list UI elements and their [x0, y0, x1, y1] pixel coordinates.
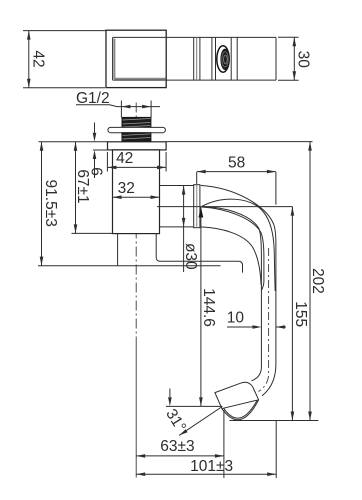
- svg-text:42: 42: [29, 50, 46, 67]
- top view: extension line lower left: [23, 87, 105, 89]
- svg-text:202: 202: [309, 268, 326, 294]
- angle 31 degree vertical arrow: [169, 389, 171, 398]
- outlet rim arc outer: [222, 400, 259, 419]
- dimension 58 extension lines: [197, 172, 276, 205]
- escutcheon flange: [108, 127, 165, 132]
- front view: body block: [113, 150, 160, 234]
- spout tube centerline: [259, 248, 269, 392]
- extension line at outlet bottom: [230, 420, 319, 422]
- top view: spout right end edge: [275, 37, 277, 80]
- dimension 58 line: [197, 171, 276, 173]
- front view: under-counter shank: [117, 234, 119, 266]
- dimension 91.5±3 line: [41, 142, 43, 266]
- svg-text:ø30: ø30: [182, 243, 199, 270]
- dimension 32 (body width) line: [113, 196, 160, 198]
- top view: inner shading left: [113, 39, 115, 79]
- G1/2 underline leader: [76, 105, 160, 107]
- dimension 42 (plate width) extension lines: [107, 152, 166, 172]
- extension line at spout water level: [157, 206, 293, 208]
- extension line at body bottom: [72, 232, 113, 234]
- top view: aerator concentric ellipses: [217, 46, 229, 72]
- spout taper curve 3b: [202, 207, 264, 290]
- extension line at plate top (right): [166, 141, 312, 143]
- dimension 42 (top view height) line: [28, 31, 30, 88]
- top view: aerator housing lines: [211, 37, 213, 80]
- svg-text:30: 30: [294, 51, 311, 69]
- top view: spout bottom edge: [113, 79, 276, 81]
- svg-text:155: 155: [292, 301, 309, 327]
- extension line below tube outer edge: [275, 421, 277, 479]
- dimension 42 (plate width) line: [107, 166, 166, 168]
- top view: spout top edge: [113, 36, 276, 38]
- extension line below nozzle tip: [223, 410, 225, 478]
- spout taper curve 2: [202, 199, 276, 291]
- extension line at outlet tip level: [166, 405, 222, 407]
- dimension 101±3 line: [136, 473, 276, 475]
- spout taper curve 3 (becomes inner wall): [202, 207, 262, 381]
- dimension 67±1 line: [75, 142, 77, 234]
- outlet nozzle body: [215, 382, 259, 408]
- threaded inlet pipe lower section: [122, 133, 151, 142]
- dimension 6 arrows and line: [94, 123, 96, 133]
- spout inner bend curve: [201, 227, 261, 285]
- extension line at plate bottom (for dim 6): [93, 149, 108, 151]
- spout connector collar: [194, 185, 200, 228]
- vertical centerline of faucet body: [135, 103, 137, 341]
- top view: inner shading bottom: [114, 78, 165, 80]
- threaded inlet pipe upper section: [122, 117, 151, 127]
- spout arm top edge: [160, 185, 194, 187]
- svg-text:101±3: 101±3: [190, 458, 233, 475]
- spout outer curve (top wall): [201, 185, 276, 395]
- spout arm bottom edge: [160, 226, 194, 228]
- dimension 30 (spout width) extension lines: [278, 37, 299, 80]
- top view: connector joint lines: [193, 37, 195, 80]
- mounting surface line: [38, 265, 221, 267]
- svg-text:58: 58: [228, 155, 245, 172]
- dimension 144.6 line: [200, 207, 202, 406]
- svg-text:91.5±3: 91.5±3: [42, 180, 59, 227]
- svg-text:63±3: 63±3: [160, 438, 194, 455]
- svg-text:32: 32: [118, 180, 135, 197]
- dimension 10 lines and arrows: [227, 326, 286, 328]
- svg-text:6: 6: [88, 167, 105, 176]
- svg-text:144.6: 144.6: [200, 288, 217, 327]
- svg-text:10: 10: [227, 310, 245, 327]
- top view: body square outline: [106, 30, 166, 87]
- extension line at plate top (left): [39, 141, 108, 143]
- G1/2 extension lines: [121, 101, 151, 118]
- dimension 63±3 line: [136, 455, 224, 457]
- front view: top plate: [108, 142, 167, 150]
- svg-text:42: 42: [116, 150, 133, 167]
- top view: inner spout outline left edge: [112, 37, 114, 80]
- dimension 155 line: [291, 207, 293, 421]
- outlet rim arc inner: [224, 400, 258, 418]
- angle 31 degree diagonal leader: [179, 407, 222, 436]
- G1/2 arrows: [121, 105, 130, 109]
- dimension 202 line: [309, 142, 311, 421]
- dimension 30 line: [293, 37, 295, 80]
- dimension ø30 line: [183, 186, 185, 272]
- top view: extension line upper left: [23, 30, 106, 32]
